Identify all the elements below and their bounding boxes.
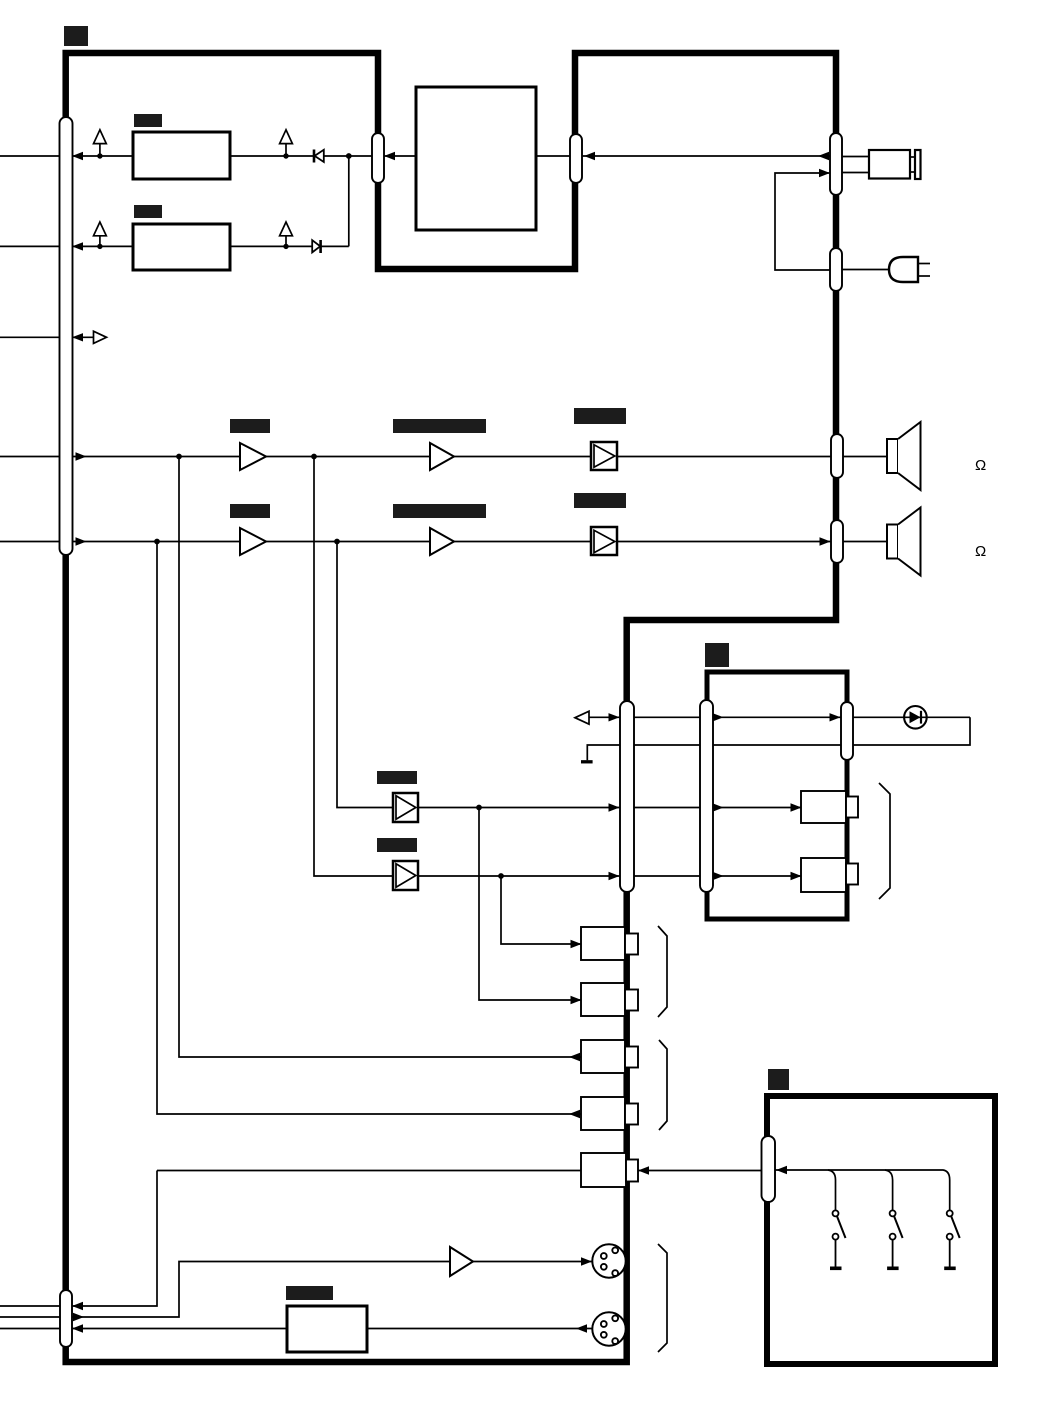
wire R channel pill to amp A3 — [72, 541, 240, 543]
input jack row4 — [581, 1097, 638, 1130]
power flag arrow up on line1 at bus — [94, 130, 107, 156]
arrow detect into CN8 — [609, 713, 620, 721]
switch SW2 — [887, 1210, 903, 1268]
arrow out of bus line R — [76, 537, 87, 545]
arrow ph line1 into PH1 — [791, 803, 802, 811]
label B2 redacted — [134, 205, 162, 218]
wire B2 box to diode D2 — [230, 245, 312, 247]
label B3 redacted — [286, 1286, 333, 1300]
arrow into bus line3 — [72, 333, 83, 341]
wire fuse to plug blade lower — [910, 171, 915, 173]
fuse F1 — [869, 150, 921, 179]
wire B1 box to diode D1 — [230, 155, 314, 157]
connector pill bus CN1 — [60, 117, 73, 555]
AC plug P1 — [889, 257, 918, 282]
wire D2 to node J1 — [321, 245, 349, 247]
wire AC plug prong lower — [918, 275, 930, 277]
wire jack row 5 to switch board pill — [638, 1170, 762, 1172]
label AT2 redacted — [574, 493, 626, 508]
arrow into CN3 — [584, 152, 595, 160]
connector pill CN8 — [620, 701, 634, 892]
amplifier A2 — [430, 443, 454, 470]
wire line 2 pill to box B2 — [72, 245, 133, 247]
arrow ph line2 into CN8 — [609, 872, 620, 880]
wire R channel input stub — [0, 541, 60, 543]
rec jack row2 — [581, 983, 638, 1016]
input jack row3 — [581, 1040, 638, 1073]
DIN connector DIN1 — [592, 1244, 625, 1277]
wire CN2 to power supply block — [384, 155, 416, 157]
arrow out of jack row4 — [569, 1110, 580, 1118]
connector pill CN9 — [700, 700, 713, 892]
arrow into CN7 — [820, 537, 831, 545]
wire L channel pill to amp A1 — [72, 456, 240, 458]
power supply block U1 — [416, 87, 536, 230]
arrow into CN12 bottom — [72, 1324, 83, 1332]
wire L branch down to attenuator AT4 — [314, 457, 393, 877]
amplifier A1 — [240, 443, 266, 470]
amplifier A5 — [450, 1247, 473, 1276]
bracket headphone jacks — [879, 783, 890, 899]
arrow into bus line1 — [72, 152, 83, 160]
open arrow left headphone detect — [575, 711, 589, 724]
connector pill CN12 — [60, 1290, 72, 1347]
wire CN4 to fuse lower — [842, 172, 869, 174]
wire amp A4 to attenuator AT2 — [454, 541, 591, 543]
rec jack row1 — [581, 927, 638, 960]
arrow detect into CN10 — [830, 713, 841, 721]
wire CN6 to speaker SP1 — [843, 456, 887, 458]
power flag arrow up on line2 at bus — [94, 222, 107, 246]
LED PL1 — [904, 706, 927, 729]
diode D1 — [314, 150, 324, 163]
label board name redacted — [64, 26, 88, 46]
wire control line 3 left stub — [0, 336, 60, 338]
wire AT2 to speaker connector CN7 — [617, 541, 831, 543]
svg-text:Ω: Ω — [975, 457, 986, 474]
wire bottom stub 3 — [0, 1328, 60, 1330]
wire bottom stub 1 — [0, 1305, 60, 1307]
arrow into bus line2 — [72, 242, 83, 250]
open arrow right on line3 — [94, 331, 107, 343]
arrow into jack row5 — [638, 1166, 649, 1174]
wire control line 3 pill stub right — [72, 336, 93, 338]
arrow into CN12 top — [72, 1302, 83, 1310]
arrow into CN4 primary — [819, 169, 830, 177]
headphone jack PH2 — [801, 858, 858, 892]
connector pill CN11 — [762, 1136, 776, 1202]
wire node J3 down to rec jack row 1 — [501, 876, 581, 944]
wire L channel input stub — [0, 456, 60, 458]
chassis main outline — [66, 53, 836, 1362]
wire bottom stub 2 — [0, 1316, 60, 1318]
label switch board redacted — [768, 1069, 789, 1090]
wire R branch down to attenuator AT3 — [337, 542, 393, 808]
wire CN7 to speaker SP2 — [843, 541, 887, 543]
wire amp A1 to amp A2 — [266, 456, 430, 458]
amplifier A4 — [430, 528, 454, 555]
DIN connector DIN2 — [592, 1312, 625, 1345]
wire DIN2 to bottom connector — [72, 1328, 592, 1330]
attenuator AT1 — [591, 442, 617, 470]
svg-text:Ω: Ω — [975, 543, 986, 560]
wire headphone detect line — [589, 716, 970, 718]
wire amp A2 to attenuator AT1 — [454, 456, 591, 458]
wire amp A5 to DIN1 — [473, 1261, 592, 1263]
regulator box B2 — [133, 224, 230, 270]
diode D2 — [312, 240, 320, 253]
wire AT1 to speaker connector CN6 — [617, 456, 831, 458]
power flag arrow up on line2 after B2 — [280, 222, 293, 246]
wire AT4 out to headphone jack PH2 — [418, 875, 801, 877]
label headphone board redacted — [705, 643, 729, 667]
label A3 redacted — [230, 504, 270, 518]
bracket DIN connectors — [658, 1244, 667, 1352]
label AT4 redacted — [377, 838, 417, 852]
input jack row5 — [581, 1153, 638, 1187]
wire switch board bus — [775, 1170, 950, 1210]
wire D1 to connector CN2 — [324, 155, 373, 157]
wire jack row 5 down to bottom connector — [72, 1171, 157, 1307]
attenuator AT2 — [591, 527, 617, 555]
wire fuse to plug blade upper — [910, 156, 915, 158]
arrow detect after CN9 — [713, 713, 724, 721]
arrow into jack row1 — [571, 940, 582, 948]
speaker SP2 — [887, 508, 921, 576]
connector pill CN4 — [830, 133, 842, 195]
wire node J2 down to rec jack row 2 — [479, 808, 581, 1001]
arrow ph line2 into PH2 — [791, 872, 802, 880]
connector pill CN10 — [841, 702, 853, 760]
wire switch S1 tap — [828, 1170, 836, 1210]
wire R branch down to jack row 4 — [157, 542, 581, 1115]
label B1 redacted — [134, 114, 162, 127]
speaker SP1 — [887, 422, 921, 490]
amplifier A3 — [240, 528, 266, 555]
arrow ph line1 into CN8 — [609, 803, 620, 811]
junction dots — [97, 153, 504, 879]
arrow into DIN1 — [581, 1257, 592, 1265]
arrow out of CN12 mid — [73, 1313, 84, 1321]
switch SW3 — [944, 1210, 960, 1268]
power flag arrow up on line1 after B1 — [280, 130, 293, 156]
wire power supply block to CN3 — [536, 155, 570, 157]
wire line 2 left stub — [0, 245, 60, 247]
label AT1 redacted — [574, 408, 626, 424]
label A4 redacted — [393, 504, 486, 518]
attenuator AT4 — [393, 861, 418, 890]
wire amp A3 to amp A4 — [266, 541, 430, 543]
arrow out of DIN2 — [576, 1324, 587, 1332]
connector pill CN6 — [831, 434, 843, 478]
wire CN4 to fuse upper — [842, 156, 869, 158]
wire jack row 5 to chassis — [157, 1170, 581, 1172]
wire AC plug prong upper — [918, 263, 930, 265]
bracket jacks rows 1-2 — [658, 926, 667, 1017]
connector pill CN3 — [570, 134, 582, 183]
wire +B line 1 left stub — [0, 155, 60, 157]
arrow ph line2 after CN9 — [713, 872, 724, 880]
arrow toward CN3 near CN4 — [818, 152, 829, 160]
wire CN5 to AC plug — [842, 269, 890, 271]
label AT3 redacted — [377, 771, 417, 784]
wire bottom connector mid to DIN amp — [72, 1262, 450, 1318]
wire +B line 1 pill to regulator box B1 — [72, 155, 133, 157]
speaker switch board outline — [767, 1096, 995, 1364]
connector pill CN7 — [831, 520, 843, 563]
arrow out of bus line L — [76, 452, 87, 460]
wire CN3 to CN4 secondary — [582, 155, 830, 157]
label A2 redacted — [393, 419, 486, 433]
wire node J1 vertical tie — [348, 156, 350, 246]
signal block B3 — [287, 1306, 367, 1352]
arrow ph line1 after CN9 — [713, 803, 724, 811]
arrow into CN2 — [384, 152, 395, 160]
label A1 redacted — [230, 419, 270, 433]
ground headphone return — [581, 760, 593, 763]
headphone board outline — [707, 672, 847, 919]
arrow into jack row2 — [571, 996, 582, 1004]
wire AC primary from CN4 — [775, 173, 830, 270]
arrow out of jack row3 — [569, 1053, 580, 1061]
switch SW1 — [830, 1210, 846, 1268]
wire LED return loop — [587, 717, 970, 760]
wire L branch down to jack row 3 — [179, 457, 581, 1058]
connector pill CN2 — [372, 133, 384, 183]
headphone jack PH1 — [801, 791, 858, 823]
connector pill CN5 — [830, 248, 842, 291]
bracket jacks rows 3-4 — [659, 1040, 667, 1130]
wire switch S2 tap — [885, 1170, 893, 1210]
attenuator AT3 — [393, 793, 418, 822]
wire AT3 out to headphone jack PH1 — [418, 807, 801, 809]
regulator box B1 — [133, 132, 230, 179]
arrow into CN11 — [776, 1166, 787, 1174]
